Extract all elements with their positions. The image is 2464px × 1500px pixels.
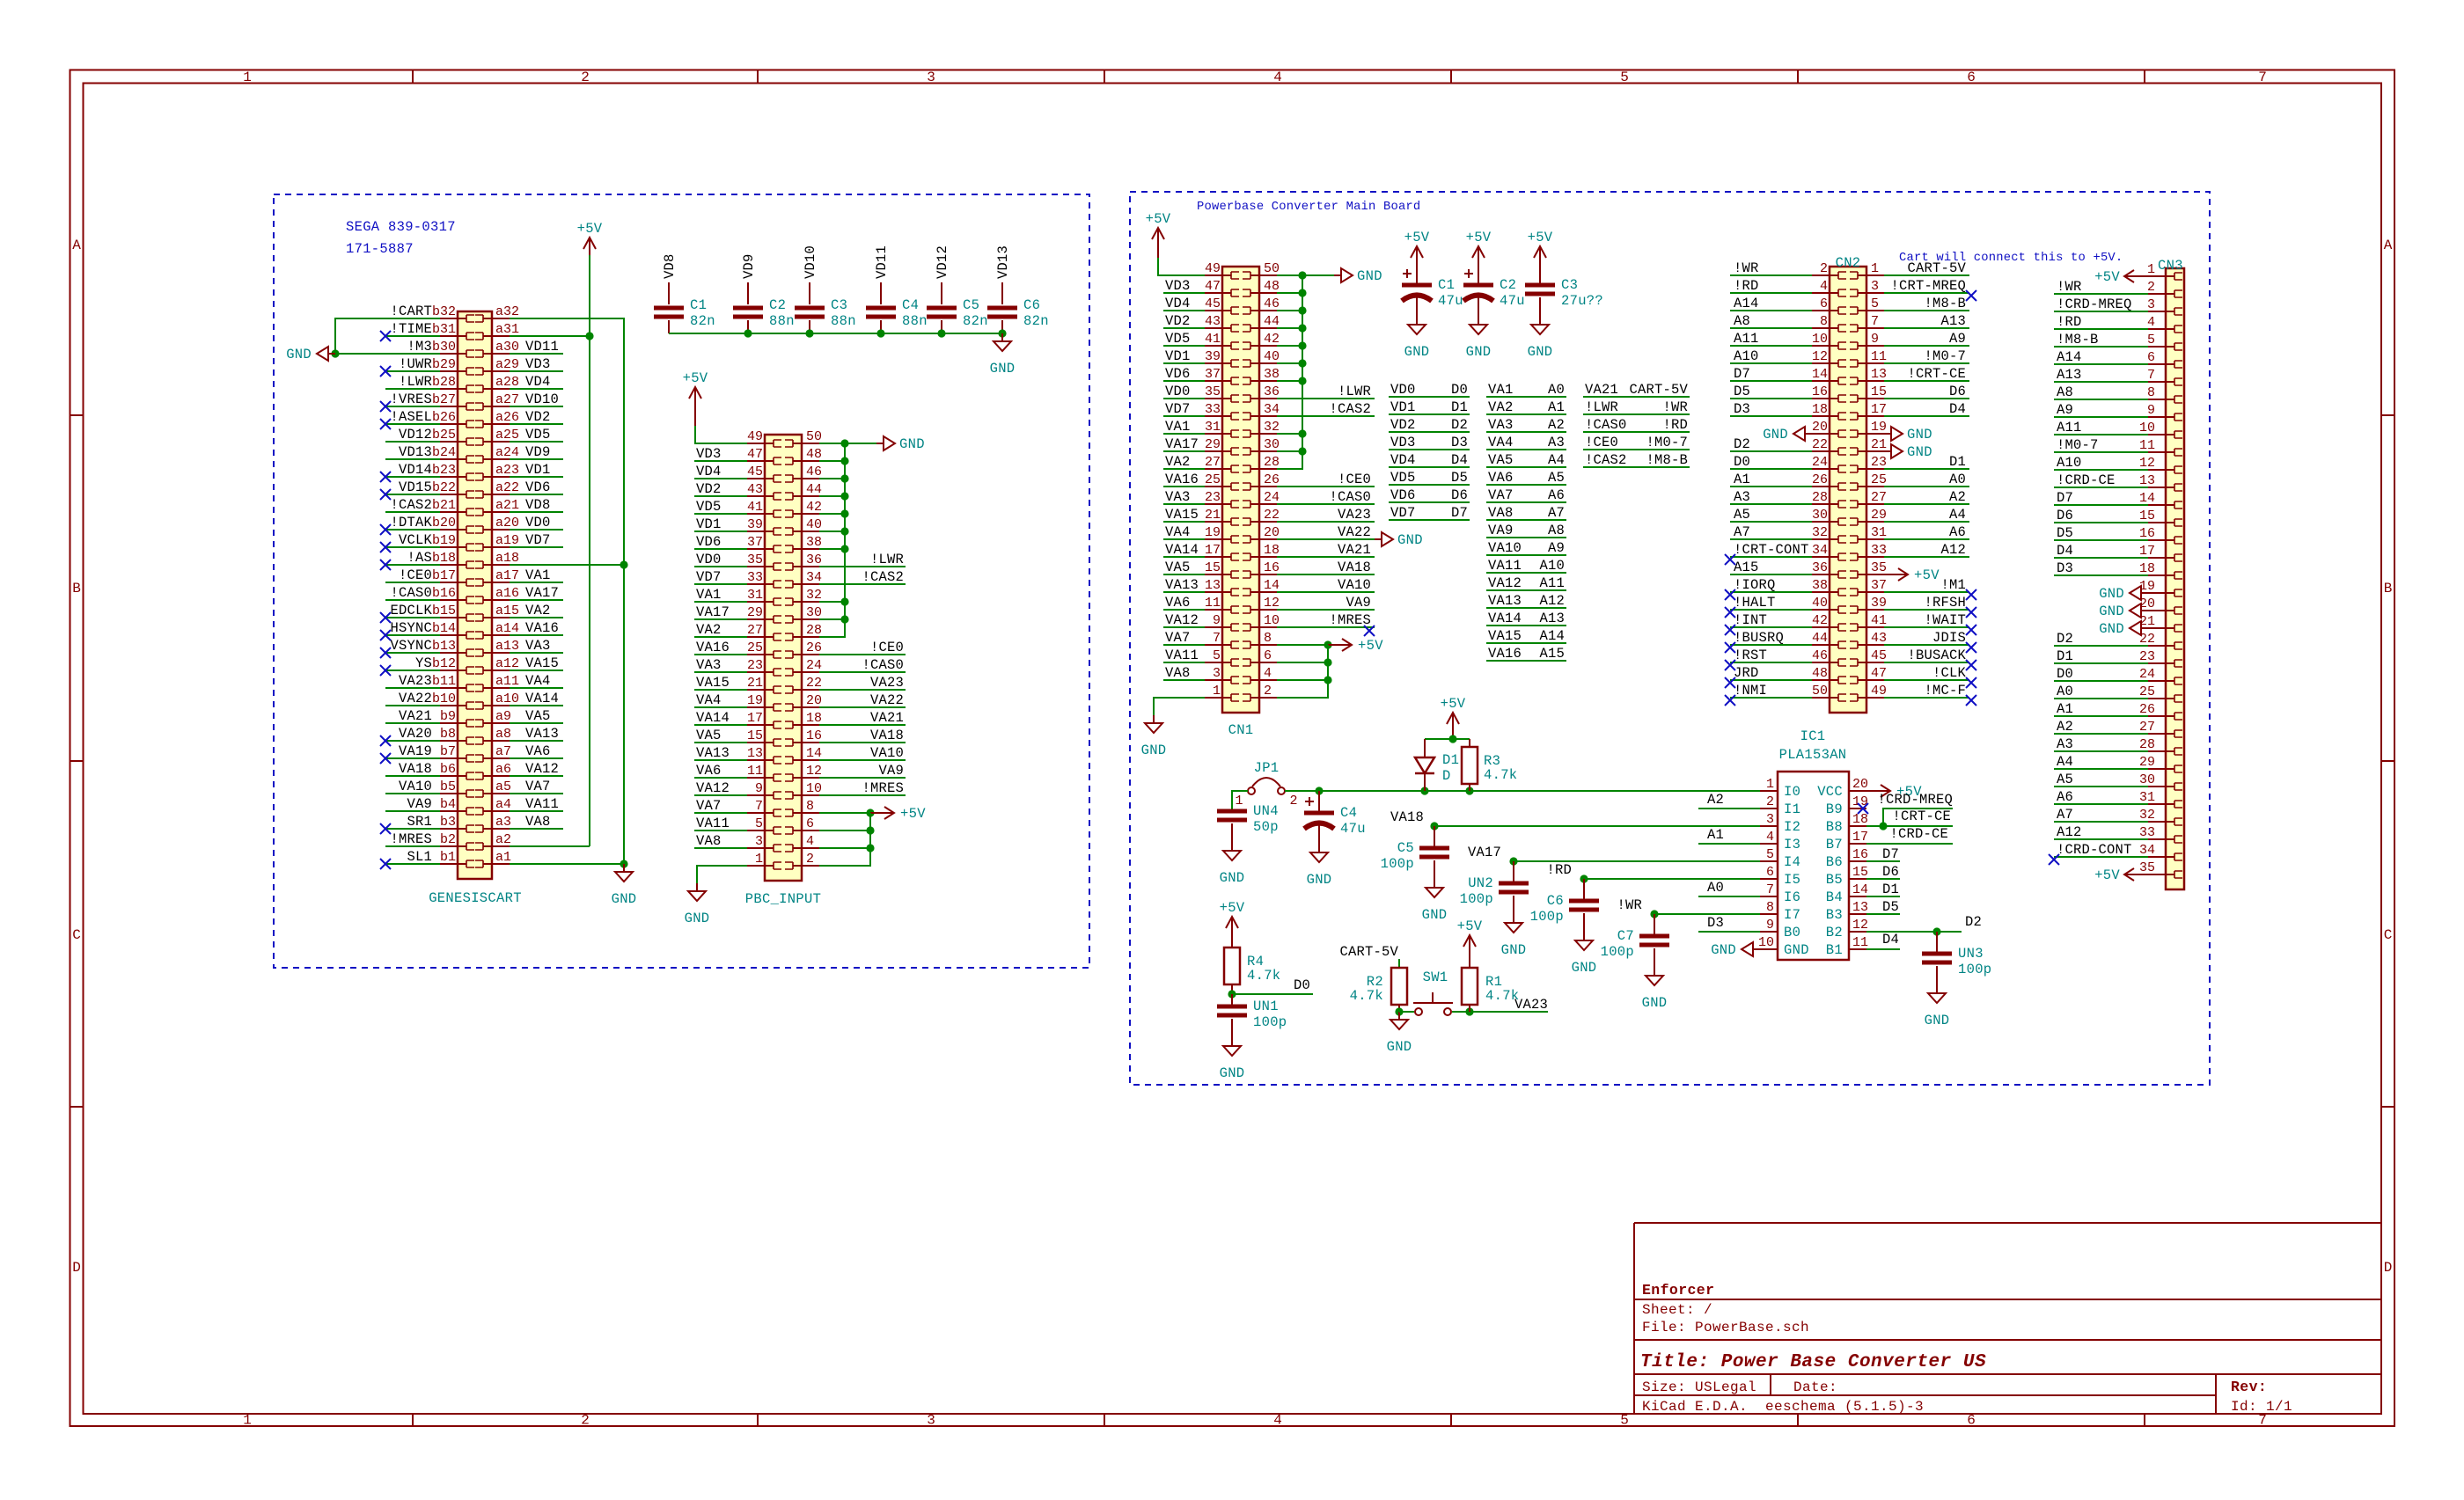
svg-text:29: 29	[2139, 755, 2155, 770]
svg-text:6: 6	[1967, 1413, 1976, 1429]
IC1 pin 17	[1826, 830, 1868, 852]
svg-text:b20: b20	[432, 516, 456, 530]
svg-text:VA12: VA12	[525, 761, 559, 777]
GENESISCART pin a8	[475, 727, 511, 744]
wire	[1866, 825, 1953, 827]
wire	[819, 847, 870, 849]
PBC_INPUT pin 44	[785, 482, 822, 500]
svg-text:31: 31	[1871, 525, 1887, 540]
svg-text:VD8: VD8	[525, 497, 551, 513]
svg-text:D: D	[72, 1260, 81, 1276]
svg-text:!WR: !WR	[1734, 260, 1759, 276]
PBC_INPUT pin 27	[747, 623, 781, 640]
wire	[694, 548, 747, 550]
wire	[1163, 521, 1205, 523]
svg-text:41: 41	[1871, 613, 1887, 628]
power +5V	[1466, 230, 1492, 285]
svg-text:1: 1	[2147, 262, 2155, 277]
svg-text:+5V: +5V	[1220, 900, 1245, 916]
svg-text:VD7: VD7	[1165, 401, 1191, 417]
wire	[1163, 538, 1205, 540]
svg-text:VA9: VA9	[878, 763, 904, 779]
svg-text:Sheet: /: Sheet: /	[1642, 1302, 1712, 1318]
wire	[510, 740, 563, 742]
junction	[744, 329, 752, 337]
wire	[510, 564, 624, 566]
CN1 pin 45	[1205, 296, 1239, 314]
wire	[1730, 310, 1812, 311]
svg-text:28: 28	[2139, 737, 2155, 752]
svg-text:!MRES: !MRES	[390, 831, 432, 847]
svg-text:b10: b10	[432, 691, 456, 706]
svg-text:4.7k: 4.7k	[1485, 988, 1519, 1004]
svg-text:VA5: VA5	[525, 708, 551, 724]
wire	[1698, 808, 1760, 809]
wire	[1730, 591, 1812, 593]
svg-text:28: 28	[1264, 455, 1280, 470]
svg-text:2: 2	[581, 70, 590, 85]
wire	[1277, 521, 1375, 523]
svg-text:GENESISCART: GENESISCART	[429, 890, 522, 906]
svg-text:VA18: VA18	[1390, 809, 1424, 825]
svg-text:A8: A8	[1734, 313, 1750, 329]
svg-text:3: 3	[1871, 279, 1879, 294]
connector PBC_INPUT +5V vertical wire	[869, 813, 871, 866]
svg-text:VA7: VA7	[1488, 487, 1514, 503]
no-connect	[380, 472, 391, 482]
CN1 pin 39	[1205, 349, 1239, 367]
wire	[1884, 362, 1969, 364]
svg-text:!CRD-CE: !CRD-CE	[1889, 826, 1948, 842]
GENESISCART pin b30	[432, 340, 474, 357]
svg-text:A2: A2	[1949, 489, 1966, 505]
wire	[385, 845, 440, 847]
svg-text:2: 2	[1820, 261, 1828, 276]
svg-text:a12: a12	[495, 656, 519, 671]
wire	[510, 546, 563, 548]
svg-text:VA2: VA2	[696, 622, 722, 638]
svg-text:34: 34	[806, 570, 822, 585]
wire	[1884, 538, 1969, 540]
svg-text:23: 23	[1205, 490, 1221, 505]
junction	[620, 860, 627, 867]
wire	[1583, 396, 1690, 398]
svg-text:!CAS0: !CAS0	[1585, 417, 1627, 433]
svg-text:6: 6	[1967, 70, 1976, 85]
svg-text:82n: 82n	[690, 313, 715, 329]
wire	[510, 845, 590, 847]
CN1 pin 37	[1205, 367, 1239, 384]
CN3 pin 29	[2139, 755, 2182, 772]
svg-text:a32: a32	[495, 304, 519, 319]
wire	[1730, 574, 1812, 575]
CN1 pin 9	[1205, 613, 1239, 631]
wire	[1232, 791, 1248, 809]
svg-text:+5V: +5V	[577, 221, 603, 237]
svg-text:Rev:: Rev:	[2231, 1379, 2267, 1395]
wire	[1158, 258, 1205, 275]
wire	[2054, 557, 2148, 559]
wire	[819, 495, 845, 497]
CN1 pin 22	[1243, 508, 1280, 525]
svg-text:28: 28	[1812, 490, 1828, 505]
svg-text:b23: b23	[432, 463, 456, 478]
wire	[1884, 609, 1969, 611]
GENESISCART pin b27	[432, 392, 474, 410]
svg-text:CART-5V: CART-5V	[1339, 944, 1398, 960]
wire	[385, 687, 440, 689]
wire	[1425, 738, 1470, 740]
svg-text:32: 32	[2139, 808, 2155, 823]
wire	[1277, 538, 1375, 540]
GENESISCART pin b28	[432, 375, 474, 392]
svg-text:!CE0: !CE0	[399, 567, 432, 583]
svg-text:!CRD-CONT: !CRD-CONT	[2057, 842, 2132, 858]
wire	[510, 370, 563, 372]
CN1 pin 24	[1243, 490, 1280, 508]
svg-text:Powerbase Converter Main Board: Powerbase Converter Main Board	[1197, 200, 1420, 214]
svg-text:VD6: VD6	[696, 534, 722, 550]
GENESISCART pin b11	[432, 674, 474, 691]
no-connect	[380, 648, 391, 658]
junction	[876, 329, 884, 337]
IC1 pin 11	[1826, 935, 1868, 958]
CN2 pin 8	[1812, 314, 1846, 332]
GENESISCART pin b25	[432, 428, 474, 445]
wire	[2054, 680, 2148, 682]
svg-text:7: 7	[755, 799, 763, 814]
svg-text:VA18: VA18	[1338, 560, 1371, 575]
wire	[1277, 556, 1375, 558]
svg-text:26: 26	[1812, 472, 1828, 487]
GENESISCART pin a23	[475, 463, 519, 480]
ground	[1884, 427, 1932, 443]
wire	[1884, 662, 1969, 663]
svg-text:12: 12	[2139, 456, 2155, 471]
svg-text:VA16: VA16	[1165, 472, 1199, 487]
svg-text:44: 44	[1812, 631, 1828, 646]
svg-text:15: 15	[1852, 865, 1868, 880]
svg-text:18: 18	[1852, 812, 1868, 827]
CN1 pin 12	[1243, 596, 1280, 613]
PBC_INPUT pin 34	[785, 570, 822, 588]
svg-text:47: 47	[1871, 666, 1887, 681]
CN2 pin 35	[1850, 560, 1887, 578]
CN3 pin 26	[2139, 702, 2182, 720]
svg-text:!M8-B: !M8-B	[2057, 332, 2099, 348]
svg-text:GND: GND	[2099, 586, 2124, 602]
svg-text:I3: I3	[1784, 837, 1800, 852]
svg-text:VD13: VD13	[995, 245, 1011, 279]
PBC_INPUT pin 2	[785, 852, 819, 869]
svg-text:3: 3	[2147, 297, 2155, 312]
CN3 pin 6	[2147, 350, 2182, 368]
svg-text:VD6: VD6	[1390, 487, 1416, 503]
svg-text:13: 13	[2139, 473, 2155, 488]
junction	[1395, 1007, 1403, 1015]
svg-text:b3: b3	[440, 815, 456, 830]
CN1 pin 25	[1205, 472, 1239, 490]
svg-text:A3: A3	[2057, 736, 2073, 752]
CN2 pin 31	[1850, 525, 1887, 543]
wire	[1163, 609, 1205, 611]
wire	[385, 564, 440, 566]
svg-text:+5V: +5V	[1146, 211, 1171, 227]
ground	[2099, 604, 2148, 619]
svg-text:22: 22	[806, 676, 822, 691]
ground	[1925, 985, 1950, 1028]
svg-text:30: 30	[2139, 772, 2155, 787]
wire	[510, 441, 563, 443]
CN2 pin 33	[1850, 543, 1887, 560]
svg-text:40: 40	[1264, 349, 1280, 364]
svg-text:!UWR: !UWR	[399, 356, 432, 372]
svg-text:JP1: JP1	[1254, 760, 1280, 776]
wire	[1277, 680, 1328, 698]
wire	[1163, 662, 1205, 663]
CN1 pin 42	[1243, 332, 1280, 349]
svg-text:24: 24	[2139, 667, 2155, 682]
junction	[866, 844, 874, 852]
svg-text:VD6: VD6	[525, 479, 551, 495]
svg-text:17: 17	[1205, 543, 1221, 558]
capacitor C1	[654, 282, 715, 333]
wire	[819, 583, 906, 585]
wire	[2054, 311, 2148, 312]
PBC_INPUT pin 32	[785, 588, 822, 605]
svg-text:VA4: VA4	[696, 692, 722, 708]
svg-text:VA5: VA5	[1165, 560, 1191, 575]
svg-text:A1: A1	[1707, 827, 1724, 843]
power +5V	[2094, 867, 2148, 883]
svg-text:A13: A13	[1940, 313, 1966, 329]
connector CN3 body	[2166, 268, 2184, 889]
wire	[1884, 327, 1969, 329]
wire	[510, 388, 563, 390]
wire	[1277, 574, 1375, 575]
svg-text:CN3: CN3	[2158, 258, 2183, 274]
wire	[1277, 415, 1375, 417]
svg-text:18: 18	[1264, 543, 1280, 558]
CN3 pin 22	[2139, 632, 2182, 649]
svg-text:171-5887: 171-5887	[346, 241, 414, 257]
wire capacitor ground bus	[669, 333, 1002, 334]
svg-text:VD1: VD1	[696, 516, 722, 532]
wire	[2054, 328, 2148, 330]
wire	[1884, 591, 1969, 593]
no-connect	[380, 542, 391, 552]
svg-text:KiCad E.D.A. eeschema (5.1.5): KiCad E.D.A. eeschema (5.1.5)-3	[1642, 1399, 1924, 1415]
svg-text:D1: D1	[1949, 454, 1966, 470]
svg-text:3: 3	[927, 70, 935, 85]
junction	[1509, 857, 1517, 865]
ground	[1711, 942, 1760, 958]
wire	[385, 423, 440, 425]
svg-text:!RD: !RD	[1662, 417, 1688, 433]
no-connect	[1725, 677, 1735, 688]
wire	[1730, 662, 1812, 663]
svg-text:VA23: VA23	[870, 675, 904, 691]
GENESISCART pin a3	[475, 815, 511, 832]
svg-text:29: 29	[1205, 437, 1221, 452]
svg-text:A12: A12	[2057, 824, 2082, 840]
GENESISCART pin b6	[440, 762, 474, 779]
CN2 pin 41	[1850, 613, 1887, 631]
CN2 pin 20	[1812, 420, 1846, 437]
svg-text:VA17: VA17	[1165, 436, 1199, 452]
svg-text:D1: D1	[1451, 399, 1468, 415]
svg-text:b4: b4	[440, 797, 456, 812]
svg-text:30: 30	[1812, 508, 1828, 523]
GENESISCART pin a26	[475, 410, 519, 428]
CN2 pin 12	[1812, 349, 1846, 367]
svg-text:b25: b25	[432, 428, 456, 443]
svg-text:b7: b7	[440, 744, 456, 759]
wire	[1486, 396, 1566, 398]
wire	[1866, 913, 1900, 915]
PBC_INPUT pin 8	[785, 799, 819, 816]
svg-text:16: 16	[806, 728, 822, 743]
wire	[1730, 398, 1812, 399]
wire	[1277, 662, 1328, 663]
svg-text:33: 33	[1205, 402, 1221, 417]
svg-text:14: 14	[2139, 491, 2155, 506]
svg-text:11: 11	[1852, 935, 1868, 950]
svg-text:24: 24	[806, 658, 822, 673]
CN1 pin 27	[1205, 455, 1239, 472]
GENESISCART pin b19	[432, 533, 474, 551]
wire	[1884, 345, 1969, 347]
svg-text:48: 48	[1812, 666, 1828, 681]
wire	[694, 566, 747, 567]
svg-text:VA18: VA18	[399, 761, 432, 777]
svg-text:7: 7	[2147, 368, 2155, 383]
no-connect	[1966, 290, 1976, 301]
CN1 pin 31	[1205, 420, 1239, 437]
wire	[694, 830, 747, 831]
svg-text:4: 4	[2147, 315, 2155, 330]
svg-text:VD15: VD15	[399, 479, 432, 495]
svg-text:SL1: SL1	[407, 849, 432, 865]
svg-text:GND: GND	[1907, 444, 1932, 460]
svg-text:4.7k: 4.7k	[1484, 767, 1517, 783]
wire	[335, 318, 440, 354]
svg-text:VA15: VA15	[1165, 507, 1199, 523]
svg-text:2: 2	[1289, 794, 1297, 809]
no-connect	[1725, 642, 1735, 653]
CN1 pin 7	[1205, 631, 1239, 648]
svg-text:GND: GND	[1763, 427, 1788, 443]
wire	[385, 335, 440, 337]
junction	[1465, 1007, 1473, 1015]
svg-text:b18: b18	[432, 551, 456, 566]
svg-text:C1: C1	[1438, 277, 1455, 293]
wire	[510, 863, 624, 865]
svg-text:b19: b19	[432, 533, 456, 548]
wire	[1163, 433, 1205, 435]
resistor R3	[1462, 747, 1517, 784]
CN1 pin 8	[1243, 631, 1277, 648]
IC1 pin 1	[1760, 777, 1800, 800]
svg-text:b1: b1	[440, 850, 456, 865]
svg-text:VA23: VA23	[1338, 507, 1371, 523]
svg-text:VD4: VD4	[1390, 452, 1416, 468]
wire	[694, 618, 747, 620]
no-connect	[380, 665, 391, 676]
wire	[385, 705, 440, 706]
wire	[694, 583, 747, 585]
wire	[1884, 415, 1969, 417]
wire	[1884, 274, 1969, 276]
svg-text:A15: A15	[1539, 646, 1565, 662]
svg-text:A14: A14	[2057, 349, 2082, 365]
capacitor C3	[795, 282, 856, 333]
wire	[2054, 469, 2148, 471]
wire	[819, 460, 845, 462]
svg-text:82n: 82n	[963, 313, 988, 329]
svg-text:a22: a22	[495, 480, 519, 495]
wire	[819, 777, 906, 779]
PBC_INPUT pin 9	[747, 781, 781, 799]
PBC_INPUT pin 22	[785, 676, 822, 693]
svg-text:D7: D7	[2057, 490, 2073, 506]
svg-text:a16: a16	[495, 586, 519, 601]
svg-text:b12: b12	[432, 656, 456, 671]
svg-text:VD11: VD11	[874, 245, 890, 279]
svg-text:42: 42	[1812, 613, 1828, 628]
svg-text:47: 47	[747, 447, 763, 462]
svg-text:VD11: VD11	[525, 339, 559, 355]
wire	[1434, 825, 1760, 827]
svg-text:GND: GND	[1141, 743, 1167, 758]
svg-text:VA13: VA13	[696, 745, 730, 761]
svg-text:14: 14	[1264, 578, 1280, 593]
svg-text:A10: A10	[2057, 455, 2082, 471]
svg-text:!IORQ: !IORQ	[1734, 577, 1776, 593]
PBC_INPUT pin 40	[785, 517, 822, 535]
ground	[990, 333, 1016, 377]
svg-text:VA2: VA2	[1165, 454, 1191, 470]
GENESISCART pin a22	[475, 480, 519, 498]
ground	[1884, 444, 1932, 460]
svg-text:VD2: VD2	[1390, 417, 1416, 433]
CN1 pin 36	[1243, 384, 1280, 402]
junction	[1324, 658, 1331, 666]
wire	[2054, 662, 2148, 664]
svg-text:A4: A4	[2057, 754, 2073, 770]
CN2 pin 2	[1812, 261, 1846, 279]
svg-text:C5: C5	[963, 297, 979, 313]
wire	[510, 406, 563, 407]
CN2 pin 43	[1850, 631, 1887, 648]
svg-text:VA15: VA15	[525, 655, 559, 671]
svg-text:VD5: VD5	[696, 499, 722, 515]
svg-text:A2: A2	[1707, 792, 1724, 808]
ground	[1528, 317, 1553, 360]
wire	[385, 617, 440, 618]
svg-text:!AS: !AS	[407, 550, 432, 566]
CN2 pin 17	[1850, 402, 1887, 420]
CN2 pin 9	[1850, 332, 1884, 349]
wire	[2054, 715, 2148, 717]
wire	[1730, 450, 1812, 452]
no-connect	[1966, 625, 1976, 635]
wire	[694, 689, 747, 691]
GENESISCART pin a6	[475, 762, 511, 779]
svg-text:25: 25	[747, 640, 763, 655]
svg-text:UN2: UN2	[1468, 875, 1493, 891]
CN3 pin 25	[2139, 684, 2182, 702]
